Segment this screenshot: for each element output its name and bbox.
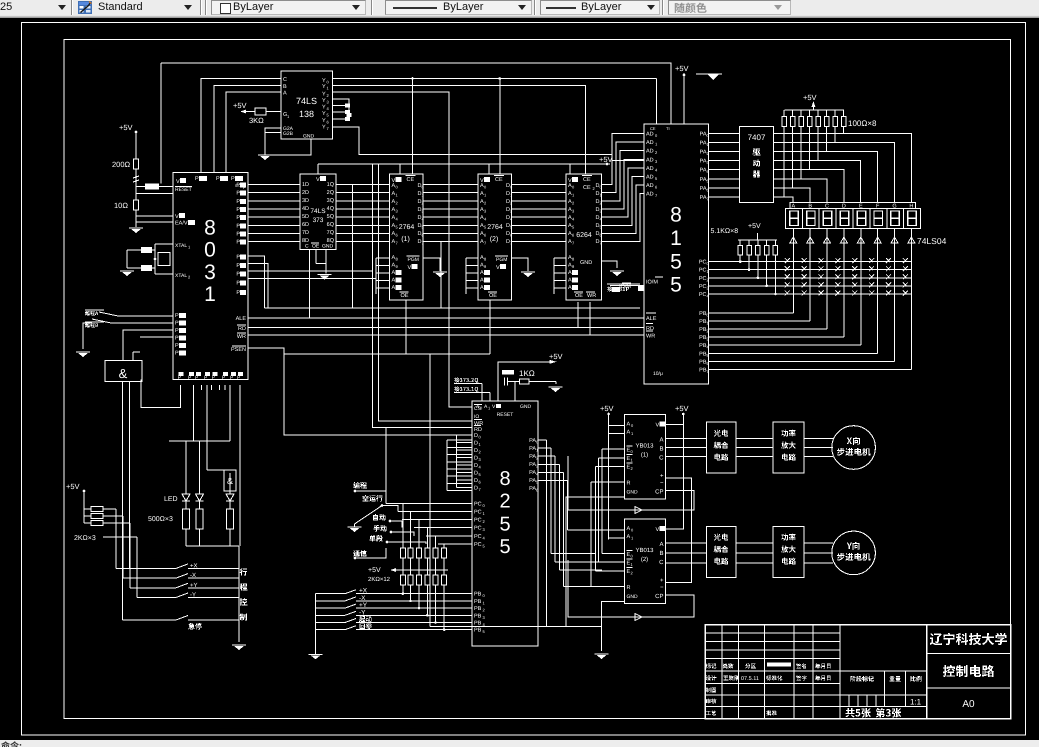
svg-text:(1): (1) <box>641 451 648 458</box>
svg-text:A: A <box>480 270 484 276</box>
svg-text:AD: AD <box>646 149 654 155</box>
svg-text:D: D <box>474 448 478 454</box>
ground (373) <box>318 275 332 280</box>
wire PC rows from 8155 to matrix <box>709 261 912 263</box>
svg-text:6Q: 6Q <box>327 222 335 228</box>
switch symbol 2 <box>92 319 111 323</box>
svg-text:Y: Y <box>322 125 326 131</box>
svg-text:5.1KΩ×8: 5.1KΩ×8 <box>711 228 739 235</box>
svg-text:PC: PC <box>699 284 707 290</box>
wire 8255 WR feed <box>373 165 473 428</box>
wire 8255 Vcc from +5V <box>498 362 555 401</box>
svg-text:+5V: +5V <box>748 223 761 230</box>
svg-text:ALE: ALE <box>646 316 657 322</box>
wire Y5 stub <box>333 111 346 113</box>
title block outer <box>705 625 1011 719</box>
svg-text:PC: PC <box>699 268 707 274</box>
svg-text:+X: +X <box>359 588 368 595</box>
motor M2 Y stepper <box>832 531 876 575</box>
svg-text:+Y: +Y <box>190 582 198 589</box>
svg-text:YB013: YB013 <box>635 547 654 554</box>
svg-text:+5V: +5V <box>368 567 381 574</box>
svg-text:P: P <box>236 272 240 278</box>
svg-text:AD: AD <box>646 192 654 198</box>
svg-text:A: A <box>568 270 572 276</box>
wire D ladder vertical <box>455 435 457 488</box>
svg-text:PB: PB <box>474 592 482 598</box>
svg-text:A: A <box>627 534 631 540</box>
wire XTAL2 <box>155 273 173 275</box>
wire to 8031 EA pin <box>136 221 173 223</box>
svg-text:OE: OE <box>575 293 583 299</box>
wire caps common to ground <box>127 249 141 251</box>
wire LED columns from P1 row <box>185 441 187 473</box>
svg-text:A0: A0 <box>962 699 975 710</box>
wire 8255 PA stubs down <box>546 600 548 626</box>
svg-text:Y: Y <box>322 98 326 104</box>
wire PSEN row <box>248 348 284 354</box>
svg-text:CP: CP <box>655 488 663 495</box>
svg-text:+: + <box>660 473 664 479</box>
svg-text:1:1: 1:1 <box>910 698 922 707</box>
wire A8 bus row <box>265 307 641 309</box>
wire manual contact <box>391 532 414 536</box>
resistor 10ohm <box>134 200 139 210</box>
svg-text:A: A <box>392 270 396 276</box>
svg-text:A: A <box>392 285 396 291</box>
svg-text:PB: PB <box>474 613 482 619</box>
wire 6264 GND to ground <box>602 261 618 268</box>
title block mid verticals <box>884 671 886 707</box>
wire 6264 OE drop <box>577 302 579 328</box>
label tong-xin (comm) <box>353 550 367 557</box>
wire ALE row <box>248 317 644 319</box>
ground (8255 reset) <box>549 387 563 392</box>
label drawing name <box>943 665 994 677</box>
svg-text:V: V <box>656 527 660 533</box>
svg-text:0.0: 0.0 <box>235 183 241 188</box>
wire WR row <box>248 334 644 336</box>
svg-text:P: P <box>195 176 199 182</box>
wire pullup columns to switch rows <box>115 509 117 568</box>
svg-text:1: 1 <box>670 227 682 250</box>
svg-text:7Q: 7Q <box>327 230 335 236</box>
wire +5V stem <box>83 491 85 523</box>
svg-text:D: D <box>474 433 478 439</box>
svg-text:ALE: ALE <box>236 316 247 322</box>
command line status bar <box>0 740 1039 747</box>
rotary switch wiper to ground <box>355 506 383 525</box>
wire 200ohm to node <box>135 169 137 200</box>
ground (6264) <box>610 271 624 276</box>
svg-text:V: V <box>175 214 179 220</box>
optocoupler box 1 <box>706 422 736 473</box>
buffer triangle (loop 1) <box>635 507 642 514</box>
svg-text:A: A <box>627 526 631 532</box>
wire plus-minus link between drivers <box>666 478 692 582</box>
+5V rail above memory chips <box>318 163 610 165</box>
optocoupler box 2 <box>706 526 736 577</box>
wire to 8031 Vss pin <box>136 215 173 217</box>
wire +5V stem <box>812 105 814 110</box>
svg-text:74LS04: 74LS04 <box>917 236 947 246</box>
wire 6264 WR drop <box>589 302 591 335</box>
svg-text:(2): (2) <box>490 235 499 243</box>
latch U3 74LS373 <box>300 174 336 250</box>
svg-text:GND: GND <box>627 594 639 600</box>
svg-text:2: 2 <box>499 491 510 513</box>
svg-text:+5V: +5V <box>675 404 689 413</box>
arrow on +5V wire <box>240 110 246 114</box>
svg-text:&: & <box>119 366 128 381</box>
wire +5V to 200ohm <box>135 132 137 159</box>
svg-text:+: + <box>660 578 664 584</box>
svg-text:0: 0 <box>204 239 216 262</box>
wire XTAL1 <box>155 243 173 245</box>
svg-text:+Y: +Y <box>359 602 368 609</box>
filled bar (1K marker) <box>502 370 514 375</box>
svg-text:-X: -X <box>190 572 196 579</box>
resistors 2Kohm x3 <box>91 507 103 512</box>
svg-text:6D: 6D <box>302 222 309 228</box>
svg-text:&: & <box>227 476 233 486</box>
label zi-dong (auto) <box>373 514 386 521</box>
svg-text:3D: 3D <box>302 198 309 204</box>
svg-text:PC: PC <box>699 292 707 298</box>
ground (key commons) <box>309 654 323 659</box>
svg-text:P: P <box>175 328 179 334</box>
svg-text:WR: WR <box>587 293 596 299</box>
svg-text:AD: AD <box>646 183 654 189</box>
svg-text:2D: 2D <box>302 190 309 196</box>
wire segment staircase rows from 7407 to display pins <box>774 134 912 203</box>
driver U8 7407 <box>740 127 774 203</box>
svg-text:A: A <box>627 421 631 427</box>
svg-text:P: P <box>236 215 240 221</box>
wire key pullup rail <box>396 569 448 571</box>
resistors 500ohm <box>183 509 190 529</box>
svg-text:1KΩ: 1KΩ <box>519 369 535 378</box>
wire 3K to G1 pin <box>266 111 281 113</box>
wire +5V to chip2 A pins <box>608 436 610 540</box>
reset electrolytic capacitor <box>145 184 159 190</box>
svg-text:+5V: +5V <box>675 64 689 73</box>
svg-text:+5V: +5V <box>600 404 614 413</box>
svg-text:PB: PB <box>474 621 482 627</box>
wire Y6 stub <box>333 118 346 120</box>
switch input row 2 <box>111 322 173 324</box>
title block row check <box>706 698 716 703</box>
wire +5V to Vcc chip1 <box>666 414 684 424</box>
wire LED join row <box>186 545 239 547</box>
wire P1 bottom row <box>169 440 230 442</box>
power amp box 2 <box>773 526 804 577</box>
wire reset row <box>136 193 173 195</box>
svg-text:4D: 4D <box>302 206 309 212</box>
wire Vcc chip2 <box>666 424 684 528</box>
label dan-duan (single block) <box>369 535 382 542</box>
wire GND chips to ground <box>566 497 625 626</box>
svg-text:P: P <box>236 280 240 286</box>
svg-text:WR: WR <box>646 334 655 340</box>
wire P3 row to and-gate <box>123 330 173 345</box>
wire comm contact <box>355 548 386 558</box>
wire 373 OE GND tie <box>315 250 317 264</box>
svg-text:5D: 5D <box>302 214 309 220</box>
switch input row 1 <box>118 315 173 317</box>
wire rail to 2764-2 Vcc <box>488 164 490 174</box>
wire PA rows 8155 to 7407 <box>709 133 740 135</box>
svg-text:A: A <box>568 285 572 291</box>
wire to LED and-gate input <box>207 469 224 471</box>
resistor 1K outline <box>520 379 530 384</box>
wire D ladder rungs <box>456 434 472 436</box>
EPROM U4 2764 (1) <box>390 174 424 300</box>
title block small labels row sign <box>706 663 717 668</box>
ground (crystal) <box>120 271 134 276</box>
svg-text:A: A <box>568 278 572 284</box>
RAM-IO U7 8155 <box>644 124 709 384</box>
svg-text:WR: WR <box>237 334 246 340</box>
wire resistor tails to staircase rows <box>783 126 785 197</box>
svg-text:+X: +X <box>190 562 198 569</box>
optocoupler text 1 <box>714 430 729 437</box>
svg-text:5Q: 5Q <box>327 214 335 220</box>
wire -Y feed <box>136 537 138 598</box>
resistor 200ohm <box>134 159 139 169</box>
svg-text:AD: AD <box>646 132 654 138</box>
motor M1 X stepper <box>832 426 876 470</box>
wire 8255 RD feed <box>379 165 472 422</box>
svg-text:P: P <box>216 176 220 182</box>
wire 2764-2 OE drop <box>489 300 491 354</box>
svg-text:CE: CE <box>583 185 591 191</box>
svg-text:P: P <box>236 207 240 213</box>
toolbar icon: table style <box>77 1 93 15</box>
ground (eprom) <box>521 272 535 277</box>
svg-text:PC: PC <box>474 501 482 507</box>
wire rail to 2764-1 Vcc <box>399 164 401 174</box>
svg-text:D: D <box>474 485 478 491</box>
svg-text:CS: CS <box>474 406 482 412</box>
svg-text:8: 8 <box>499 468 510 490</box>
wire R bus <box>591 481 625 483</box>
svg-text:10Ω: 10Ω <box>114 201 128 210</box>
svg-text:5: 5 <box>499 513 510 535</box>
svg-text:LED: LED <box>164 496 178 503</box>
svg-text:G2B: G2B <box>283 131 294 137</box>
wire rail to 6264 Vcc <box>569 164 571 174</box>
resistor pack 100ohm x8 <box>783 110 785 117</box>
wire P0 bus 8031 to 373 <box>248 184 300 186</box>
svg-text:EA/V: EA/V <box>175 221 188 227</box>
microcontroller U1 8031 <box>173 173 248 380</box>
svg-text:−: − <box>660 480 664 486</box>
ground (138) <box>258 155 272 160</box>
ground (drivers) <box>595 654 609 659</box>
svg-text:8: 8 <box>204 217 216 240</box>
svg-text:V: V <box>176 179 180 185</box>
wire Y1 to 6264 CE <box>333 86 586 175</box>
wire 8031 bottom pin columns <box>192 385 194 441</box>
svg-text:XTAL: XTAL <box>175 273 187 279</box>
wire chip1 feedback loop <box>568 456 694 510</box>
svg-text:P: P <box>236 231 240 237</box>
svg-text:CE: CE <box>650 126 656 131</box>
svg-text:B: B <box>659 550 663 557</box>
svg-text:100Ω×8: 100Ω×8 <box>848 119 877 128</box>
wire and-gate output to 8031 pin <box>141 379 181 407</box>
wire digit columns below display <box>792 228 794 312</box>
svg-text:PC: PC <box>474 526 482 532</box>
driver U10 YB013 (1) <box>625 414 666 499</box>
svg-text:P: P <box>175 351 179 357</box>
svg-text:200Ω: 200Ω <box>112 160 131 169</box>
svg-text:A: A <box>659 541 663 548</box>
ground (limit switches) <box>76 352 90 357</box>
svg-text:D: D <box>474 478 478 484</box>
wire Y7 to 8155 left <box>333 127 645 161</box>
svg-text:PC: PC <box>699 276 707 282</box>
ground (reset divider) <box>129 228 143 233</box>
svg-text:5: 5 <box>670 274 682 297</box>
wire RD row <box>248 327 644 329</box>
svg-text:8: 8 <box>670 204 682 227</box>
label to-8031 P <box>607 286 629 291</box>
svg-text:+5V: +5V <box>549 352 563 361</box>
RAM U6 6264 <box>566 174 602 300</box>
svg-text:GND: GND <box>520 404 532 410</box>
power amp box 1 <box>773 422 804 473</box>
application toolbar <box>0 15 1039 18</box>
svg-text:OE: OE <box>489 293 497 299</box>
wire data drop to bottom rail <box>429 354 431 626</box>
wire Y0 to chip selects <box>333 78 657 80</box>
svg-text:CE: CE <box>583 177 591 183</box>
label bian-cheng (program mode) <box>353 482 367 489</box>
buffer triangle (loop 2) <box>635 614 642 621</box>
svg-text:PC: PC <box>474 542 482 548</box>
svg-text:PC: PC <box>474 534 482 540</box>
wire program contact row <box>355 491 386 503</box>
wire PB rows from 8155 to digit columns <box>709 312 794 314</box>
svg-text:7D: 7D <box>302 230 309 236</box>
crystal Y1 <box>158 253 170 266</box>
wire phase lines X motor <box>666 438 707 440</box>
matrix cross marks <box>785 258 790 263</box>
label shou-dong (manual) <box>373 525 386 532</box>
resistor pack 5.1Kohm <box>739 240 741 246</box>
svg-text:PSEN: PSEN <box>231 347 246 353</box>
svg-text:V: V <box>316 177 320 183</box>
wire PA bus verticals from 8255 <box>538 439 547 441</box>
wire branch to 2764-1 CE <box>412 79 414 175</box>
svg-text:PC: PC <box>699 260 707 266</box>
display digits box <box>785 209 920 229</box>
svg-text:1Q: 1Q <box>327 182 335 188</box>
svg-text:A: A <box>480 285 484 291</box>
wire Y4 stub <box>333 105 346 107</box>
wire single contact <box>387 542 426 544</box>
wire pullup rail <box>738 239 777 241</box>
svg-text:A: A <box>480 278 484 284</box>
svg-text:P: P <box>175 313 179 319</box>
wire D bus stubs into 8255 <box>447 439 472 441</box>
svg-text:5: 5 <box>499 536 510 558</box>
svg-text:3: 3 <box>204 261 216 284</box>
wire key common to ground <box>315 594 317 655</box>
emergency stop switch row <box>123 619 176 621</box>
svg-text:2KΩ×3: 2KΩ×3 <box>74 535 96 542</box>
svg-text:B: B <box>659 445 663 452</box>
svg-text:1: 1 <box>204 283 216 306</box>
op wires into 74LS138 C B A from 8031 port2 <box>201 79 281 173</box>
key switch rows to 8255 PB <box>316 593 346 595</box>
title block row draw <box>706 687 716 692</box>
svg-text:P: P <box>243 185 246 190</box>
svg-text:RESET: RESET <box>497 412 514 418</box>
svg-text:P: P <box>236 191 240 197</box>
svg-text:D: D <box>474 470 478 476</box>
svg-text:2764: 2764 <box>399 224 415 231</box>
svg-text:4Q: 4Q <box>327 206 335 212</box>
svg-text:IO/M: IO/M <box>646 280 658 286</box>
svg-text:07.5.11: 07.5.11 <box>741 676 759 682</box>
svg-text:GND: GND <box>303 134 315 140</box>
svg-text:-Y: -Y <box>190 592 196 599</box>
svg-text:C: C <box>659 454 664 461</box>
svg-text:OE: OE <box>401 293 409 299</box>
svg-text:PB: PB <box>474 606 482 612</box>
svg-text:CE: CE <box>407 177 415 183</box>
wire branch to 2764-2 CE <box>499 79 501 175</box>
label kong-yun-xing (dry run) <box>362 495 382 502</box>
svg-text:D: D <box>474 455 478 461</box>
node marks on reset divider <box>133 176 139 178</box>
wire OE tie row <box>284 353 490 355</box>
svg-text:A: A <box>283 91 287 97</box>
svg-text:AD: AD <box>646 157 654 163</box>
svg-text:A: A <box>659 436 663 443</box>
svg-text:373: 373 <box>313 217 324 224</box>
label sheet count <box>845 708 901 718</box>
and gate G1 <box>105 361 142 382</box>
svg-text:R: R <box>627 585 631 591</box>
ground arrow (8155 top) <box>703 73 722 75</box>
svg-text:OE: OE <box>312 244 320 250</box>
driver U11 YB013 (2) <box>625 519 666 604</box>
wire address staging vertical B <box>440 242 442 309</box>
svg-text:PB: PB <box>474 628 482 634</box>
wire address bus rows between memories <box>423 184 478 186</box>
svg-text:AD: AD <box>646 140 654 146</box>
wire Y3 stub <box>333 99 350 113</box>
ground (eprom) <box>433 272 447 277</box>
resistor 3Kohm <box>255 108 266 115</box>
svg-text:A: A <box>627 429 631 435</box>
svg-text:P: P <box>236 223 240 229</box>
svg-text:P: P <box>175 336 179 342</box>
wire auto contact <box>390 521 402 528</box>
label emergency stop <box>188 623 202 630</box>
wire RC junction to reset pin <box>514 381 516 401</box>
svg-text:−: − <box>660 585 664 591</box>
svg-text:P: P <box>236 255 240 261</box>
wire E bus verticals <box>602 448 625 450</box>
resistor array row 1 <box>402 503 404 548</box>
svg-text:R: R <box>627 480 631 486</box>
title block left grid horizontals <box>705 632 840 634</box>
